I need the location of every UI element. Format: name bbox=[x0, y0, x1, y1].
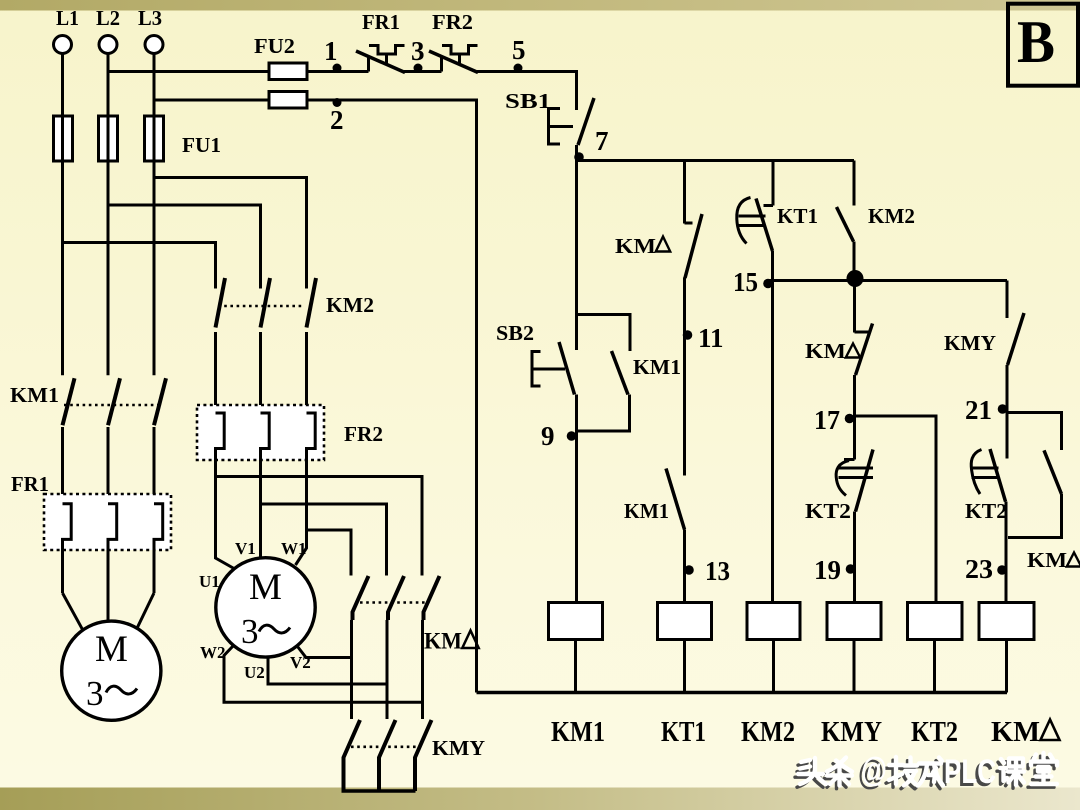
label W2 bbox=[200, 643, 226, 662]
wires into motor M1 bbox=[63, 593, 155, 629]
wire W2 to KMdelta pole3 bottom bbox=[224, 646, 423, 702]
wire U2 to KMdelta pole2 bottom bbox=[268, 657, 387, 684]
contact KM1 aux parallel bbox=[577, 315, 631, 432]
svg-text:2: 2 bbox=[330, 105, 344, 135]
label V2 bbox=[290, 653, 311, 672]
label V1 bbox=[235, 539, 256, 558]
heater FR2 element2 bbox=[261, 413, 270, 504]
branch node17 to KT2 coil bbox=[855, 416, 937, 603]
coil KT2 bbox=[908, 603, 963, 640]
wire V2 to KMdelta pole1 bottom bbox=[298, 647, 352, 658]
motor M2 tilde bbox=[259, 625, 290, 633]
label U1 bbox=[199, 572, 220, 591]
triangle KMdelta rung2 bbox=[656, 237, 670, 252]
slide letter box B bbox=[1008, 4, 1078, 86]
coil label KT2 bbox=[911, 717, 958, 748]
label U2 bbox=[244, 663, 265, 682]
contactor KM2 main pole1 bbox=[216, 278, 226, 413]
contactor KMdelta pole2 bbox=[387, 576, 404, 719]
label KM2 rung4 bbox=[868, 204, 915, 228]
svg-text:KM: KM bbox=[615, 234, 656, 258]
coil label KM1 bbox=[551, 717, 605, 748]
svg-text:KT2: KT2 bbox=[965, 499, 1007, 523]
contact KT1 delayed NC bbox=[737, 198, 773, 252]
label node 2 bbox=[330, 105, 344, 135]
label KT2 kmy rung bbox=[965, 499, 1007, 523]
contact KMdelta NO right branch bbox=[1044, 450, 1062, 494]
contactor KMY pole3 bbox=[415, 720, 432, 791]
contactor KMdelta pole3 bbox=[423, 576, 440, 719]
label FR1 box bbox=[11, 472, 49, 496]
wire L2 branch to KM2 pole2 bbox=[108, 205, 261, 289]
svg-text:@: @ bbox=[861, 751, 887, 789]
svg-text:KT1: KT1 bbox=[777, 204, 818, 228]
pushbutton SB1 bbox=[549, 98, 595, 145]
node 9 dot bbox=[567, 431, 577, 441]
svg-text:KT1: KT1 bbox=[661, 717, 706, 748]
svg-text:KT2: KT2 bbox=[805, 499, 851, 523]
KMdelta linkage dotted bbox=[360, 601, 429, 604]
wire rung4 to junction bbox=[853, 242, 856, 281]
wire to KMdelta coil bbox=[1005, 502, 1008, 603]
svg-text:3: 3 bbox=[241, 612, 259, 651]
top olive band bbox=[0, 0, 1080, 11]
motor M2 circle bbox=[216, 558, 315, 657]
svg-text:PLC: PLC bbox=[944, 753, 996, 791]
svg-text:21: 21 bbox=[965, 395, 992, 425]
wire right branch rejoin bbox=[1008, 494, 1062, 538]
KMY linkage dotted bbox=[351, 745, 420, 748]
label FU2 bbox=[254, 34, 295, 58]
wire node21 bbox=[1006, 365, 1009, 459]
bottom control bus bbox=[477, 691, 1008, 694]
svg-text:FR1: FR1 bbox=[11, 472, 49, 496]
svg-text:1: 1 bbox=[324, 36, 338, 66]
heater FR1 element1 bbox=[63, 504, 72, 593]
label KT1 bbox=[777, 204, 818, 228]
fuse FU2 upper bbox=[269, 63, 307, 80]
coil label KMdelta bbox=[991, 717, 1040, 748]
label node 17 bbox=[814, 405, 840, 435]
svg-text:KT2: KT2 bbox=[911, 717, 958, 748]
svg-text:9: 9 bbox=[541, 421, 555, 451]
junction big dot bbox=[847, 270, 864, 287]
svg-text:FR2: FR2 bbox=[432, 10, 473, 34]
coil KM1 bbox=[549, 603, 603, 640]
svg-text:11: 11 bbox=[698, 323, 724, 353]
contactor KM1 main pole3 bbox=[154, 378, 166, 504]
label KM1 parallel bbox=[633, 355, 681, 379]
terminal L2 bbox=[99, 36, 117, 54]
wire node9 rail bbox=[575, 395, 578, 603]
contact KM2 NO rung4 bbox=[837, 207, 854, 242]
KM1 linkage dotted bbox=[64, 404, 161, 407]
label node 21 bbox=[965, 395, 992, 425]
bottom olive band bbox=[0, 788, 1080, 810]
coil triangle KMdelta bbox=[1041, 720, 1060, 741]
svg-text:15: 15 bbox=[733, 267, 758, 297]
label KMdelta mid bbox=[424, 629, 462, 654]
label FU1 bbox=[182, 133, 221, 157]
wire L3 column bbox=[153, 54, 156, 376]
svg-text:KM2: KM2 bbox=[741, 717, 795, 748]
star point bus bbox=[342, 789, 416, 793]
svg-text:FR2: FR2 bbox=[344, 422, 383, 446]
wire FR1 to FR2 bbox=[404, 70, 442, 73]
svg-text:KM: KM bbox=[991, 717, 1040, 748]
node 1 dot bbox=[333, 64, 342, 73]
label KM1 rung2 lower bbox=[624, 499, 669, 523]
svg-text:13: 13 bbox=[705, 556, 730, 586]
contact KMdelta NO rung5 bbox=[856, 324, 873, 376]
svg-text:KM2: KM2 bbox=[868, 204, 915, 228]
svg-text:KM1: KM1 bbox=[633, 355, 681, 379]
heater FR1 element2 bbox=[108, 504, 117, 593]
fuse FU2 lower bbox=[269, 92, 307, 109]
label node 7 bbox=[595, 126, 609, 156]
svg-text:M: M bbox=[249, 567, 282, 608]
wire W1 into motor M2 bbox=[296, 530, 307, 565]
svg-text:KM: KM bbox=[1027, 548, 1067, 572]
rung4 top wire bbox=[853, 161, 856, 206]
label KM1 mains bbox=[10, 383, 59, 407]
svg-text:FU1: FU1 bbox=[182, 133, 221, 157]
node 2 dot bbox=[333, 98, 342, 107]
label KM2 mains bbox=[326, 293, 374, 317]
wire KM2 coil to bus bbox=[772, 640, 775, 693]
wire L1 branch to KM2 pole1 bbox=[63, 243, 216, 289]
contactor KM1 main pole1 bbox=[63, 378, 75, 504]
terminal L3 bbox=[145, 36, 163, 54]
wire KT1 coil to bus bbox=[683, 640, 686, 693]
svg-text:17: 17 bbox=[814, 405, 840, 435]
coil label KM2 bbox=[741, 717, 795, 748]
svg-text:L1: L1 bbox=[56, 6, 79, 30]
label SB1 bbox=[505, 89, 551, 113]
coil KT1 bbox=[658, 603, 712, 640]
svg-text:KM: KM bbox=[805, 339, 846, 363]
contact KT2 delayed NC kmy rung bbox=[971, 449, 1005, 502]
contactor KM2 main pole3 bbox=[307, 278, 317, 413]
node 3 dot bbox=[414, 64, 423, 73]
branch node21 right bbox=[1007, 413, 1062, 451]
node 7 dot bbox=[574, 152, 584, 162]
svg-text:7: 7 bbox=[595, 126, 609, 156]
wire KT2 coil to bus bbox=[933, 640, 936, 693]
control bus from node 7 bbox=[577, 159, 855, 162]
node15 bus bbox=[769, 279, 1007, 282]
wire rung5 to node17 bbox=[853, 375, 856, 460]
svg-text:V1: V1 bbox=[235, 539, 256, 558]
contact KT2 delayed NC rung5 bbox=[836, 450, 873, 512]
label FR2 box bbox=[344, 422, 383, 446]
fuse FU1 L2 bbox=[99, 116, 118, 161]
svg-text:U2: U2 bbox=[244, 663, 265, 682]
rung3 top wire bbox=[764, 161, 774, 206]
svg-text:V2: V2 bbox=[290, 653, 311, 672]
contactor KMY pole2 bbox=[379, 720, 396, 791]
svg-text:5: 5 bbox=[512, 35, 526, 65]
svg-text:SB2: SB2 bbox=[496, 321, 534, 345]
heater FR1 element3 bbox=[154, 504, 163, 593]
label KT2 rung5 bbox=[805, 499, 851, 523]
contact KMdelta NC rung2 bbox=[685, 214, 702, 278]
heater FR2 element3 bbox=[307, 413, 316, 530]
label KMdelta right bbox=[1027, 548, 1067, 572]
thermal contact FR1 bbox=[356, 46, 405, 73]
heater box FR1 bbox=[44, 494, 171, 550]
motor M1 letter M bbox=[95, 629, 128, 670]
motor M1 label 3 bbox=[86, 674, 104, 713]
svg-text:FU2: FU2 bbox=[254, 34, 295, 58]
motor M2 label 3 bbox=[241, 612, 259, 651]
contactor KM1 main pole2 bbox=[108, 378, 120, 504]
node 11 dot bbox=[683, 330, 693, 340]
wire pole1 to KMdelta pole3 bbox=[216, 477, 423, 576]
node 23 dot bbox=[997, 565, 1007, 575]
wire L3 to FU2 lower bbox=[154, 99, 269, 102]
fuse FU1 L3 bbox=[145, 116, 164, 161]
label node 5 bbox=[512, 35, 526, 65]
svg-text:L2: L2 bbox=[96, 6, 120, 30]
label W1 bbox=[281, 539, 307, 558]
wire U1 into motor M2 bbox=[216, 477, 235, 569]
coil label KMY bbox=[821, 717, 882, 748]
svg-text:KM1: KM1 bbox=[551, 717, 605, 748]
label node 1 bbox=[324, 36, 338, 66]
motor M1 tilde bbox=[106, 686, 137, 694]
contact KM1 NO rung2 bbox=[666, 469, 685, 530]
thermal contact FR2 bbox=[429, 46, 478, 73]
triangle KMdelta rung5 bbox=[846, 344, 860, 358]
motor M2 letter M bbox=[249, 567, 282, 608]
wire KM1 coil to bus bbox=[574, 640, 577, 693]
label L3 bbox=[138, 6, 162, 30]
svg-text:W2: W2 bbox=[200, 643, 226, 662]
label L1 bbox=[56, 6, 79, 30]
label FR2 top bbox=[432, 10, 473, 34]
wire pole3 to KMdelta pole1 bbox=[307, 530, 352, 576]
label FR1 top bbox=[362, 10, 400, 34]
label KMY rung bbox=[944, 331, 996, 355]
contactor KMdelta pole1 bbox=[352, 576, 369, 719]
node 21 dot bbox=[998, 404, 1008, 414]
terminal L1 bbox=[54, 36, 72, 54]
svg-text:KM1: KM1 bbox=[624, 499, 669, 523]
label SB2 bbox=[496, 321, 534, 345]
fuse FU1 L1 bbox=[54, 116, 73, 161]
svg-text:M: M bbox=[95, 629, 128, 670]
contactor KMY pole1 bbox=[344, 720, 361, 791]
wire pole2 to KMdelta pole2 bbox=[261, 504, 387, 576]
svg-text:3: 3 bbox=[411, 36, 425, 66]
heater FR2 element1 bbox=[216, 413, 225, 477]
label L2 bbox=[96, 6, 120, 30]
wire node5 to SB1 bbox=[477, 72, 577, 111]
wire rung5 to KMY coil bbox=[853, 512, 856, 603]
label node 9 bbox=[541, 421, 555, 451]
KM2 linkage dotted bbox=[218, 305, 303, 308]
watermark shadow bbox=[795, 754, 1054, 794]
wire KMdelta coil to bus bbox=[1005, 640, 1008, 693]
wire L2 to FU2 upper bbox=[108, 70, 269, 73]
wire KMY coil to bus bbox=[853, 640, 856, 693]
svg-text:U1: U1 bbox=[199, 572, 220, 591]
node 13 dot bbox=[684, 565, 694, 575]
wire rung2 to coil bbox=[683, 530, 686, 603]
label node 15 bbox=[733, 267, 758, 297]
wire L3 branch to KM2 pole3 bbox=[154, 178, 307, 289]
svg-text:FR1: FR1 bbox=[362, 10, 400, 34]
svg-text:SB1: SB1 bbox=[505, 89, 551, 113]
wire node 2 run to right rail bbox=[307, 100, 477, 693]
svg-text:KM1: KM1 bbox=[10, 383, 59, 407]
label KMY mid bbox=[432, 736, 485, 760]
rung5 upper wire bbox=[855, 281, 872, 333]
svg-text:B: B bbox=[1017, 9, 1055, 75]
coil KMY bbox=[827, 603, 881, 640]
svg-text:KMY: KMY bbox=[432, 736, 485, 760]
contactor KM2 main pole2 bbox=[261, 278, 271, 413]
coil label KT1 bbox=[661, 717, 706, 748]
node 19 dot bbox=[846, 564, 856, 574]
heater box FR2 bbox=[197, 405, 324, 460]
wire V1 into motor M2 bbox=[259, 504, 262, 558]
svg-text:KM2: KM2 bbox=[326, 293, 374, 317]
label KMdelta rung5 bbox=[805, 339, 846, 363]
rung2 top wire bbox=[685, 161, 693, 224]
label node 19 bbox=[814, 555, 841, 585]
coil KM2 bbox=[747, 603, 800, 640]
coil KMdelta bbox=[979, 603, 1034, 640]
node 15 dot bbox=[763, 279, 773, 289]
triangle KMdelta right bbox=[1067, 553, 1080, 567]
wire rung3 to KM2 coil bbox=[771, 251, 774, 603]
svg-text:KMY: KMY bbox=[821, 717, 882, 748]
label KMdelta rung2 bbox=[615, 234, 656, 258]
label node 11 bbox=[698, 323, 724, 353]
KMY rung upper wire bbox=[1006, 281, 1009, 319]
label node 13 bbox=[705, 556, 730, 586]
svg-text:3: 3 bbox=[86, 674, 104, 713]
svg-text:19: 19 bbox=[814, 555, 841, 585]
motor M1 circle bbox=[62, 621, 161, 720]
svg-text:KMY: KMY bbox=[944, 331, 996, 355]
node 5 dot bbox=[514, 64, 523, 73]
watermark text bbox=[798, 751, 1057, 791]
wire rung2 mid bbox=[683, 278, 686, 476]
label node 3 bbox=[411, 36, 425, 66]
contact KMY NO bbox=[1008, 313, 1025, 365]
wire SB1 to node 7 and down bbox=[575, 145, 578, 350]
wire FU2 upper to FR1 bbox=[307, 70, 369, 73]
wire L1 column bbox=[61, 54, 64, 376]
label node 23 bbox=[965, 554, 993, 584]
svg-text:W1: W1 bbox=[281, 539, 307, 558]
wire L2 column bbox=[107, 54, 110, 376]
pushbutton SB2 bbox=[532, 342, 575, 395]
node 17 dot bbox=[845, 414, 855, 424]
svg-text:L3: L3 bbox=[138, 6, 162, 30]
triangle KMdelta mid bbox=[462, 631, 478, 649]
svg-text:23: 23 bbox=[965, 554, 993, 584]
svg-text:KM: KM bbox=[424, 629, 462, 654]
